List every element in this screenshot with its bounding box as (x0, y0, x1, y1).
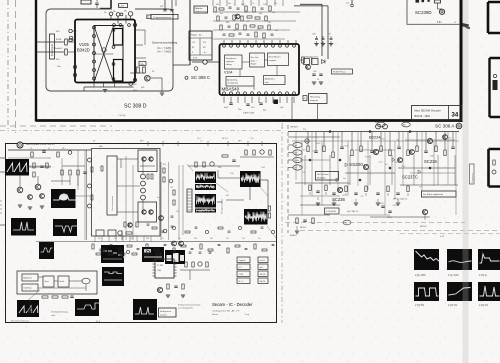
right section connecting verticals (304, 155, 306, 185)
svg-text:C1: C1 (30, 148, 32, 150)
U2 pin circles top (223, 44, 226, 47)
transistor Q33 (28, 195, 33, 200)
transistor Q60 (422, 209, 427, 214)
inductor L21 top mark (351, 0, 353, 4)
main rail right section (288, 131, 459, 133)
transistor Q31 (17, 187, 23, 193)
loop wires (38, 276, 43, 278)
svg-text:B342D: B342D (77, 48, 90, 53)
left edge stub wires (0, 157, 6, 159)
svg-text:MP1: MP1 (140, 141, 144, 143)
test point MPe box (139, 62, 146, 66)
svg-text:vergleich: vergleich (269, 59, 277, 62)
U2 block Amplitudensieb (264, 76, 286, 85)
svg-text:SC237C: SC237C (402, 175, 418, 180)
second bottom parts row (96, 253, 101, 255)
svg-text:Endst.: Endst. (60, 280, 66, 283)
svg-text:Bildrohr-: Bildrohr- (195, 7, 203, 10)
terminal double circle SC306A (456, 123, 462, 129)
cluster C81 boxes (304, 59, 310, 65)
svg-text:R216: R216 (244, 12, 249, 14)
top border tick marks (147, 141, 149, 146)
right section resistor columns (307, 132, 309, 147)
wire left feed 2 (68, 41, 75, 43)
svg-text:4k7: 4k7 (216, 4, 219, 6)
svg-text:V105: V105 (79, 42, 89, 47)
U2 block Verzoegerung (226, 77, 254, 87)
svg-text:680: 680 (448, 137, 451, 139)
oscillogram J staircase (101, 245, 124, 263)
loop summing ellipse (82, 278, 90, 284)
grounds cluster (312, 81, 316, 83)
svg-text:U¼ > 7,4V(8): U¼ > 7,4V(8) (157, 47, 171, 50)
svg-text:R45: R45 (163, 164, 166, 166)
wire pads to U1 (110, 16, 112, 20)
oscillogram M step (75, 299, 99, 316)
components right column upper (245, 150, 247, 155)
svg-text:Programmiertüren: Programmiertüren (154, 16, 172, 19)
svg-text:Der Röhre abgleichen: Der Röhre abgleichen (423, 193, 444, 196)
page margin dashed line (15, 0, 17, 133)
svg-text:ungsverst-: ungsverst- (226, 60, 235, 63)
signal name ellipses (293, 142, 302, 147)
svg-text:1k2: 1k2 (304, 141, 307, 143)
svg-text:7,2b: 7,2b (250, 138, 254, 140)
loop block 3 (43, 276, 54, 287)
mid components row x160-280 (152, 227, 157, 229)
connector X1 vertical label box (50, 34, 55, 59)
left input wire rail (8, 149, 91, 151)
svg-text:1n5/63n: 1n5/63n (312, 57, 319, 59)
svg-text:8k2: 8k2 (275, 30, 278, 32)
oscillogram G noise (195, 194, 216, 208)
svg-text:C230: C230 (429, 156, 433, 158)
svg-text:MP 0,4: MP 0,4 (222, 138, 228, 140)
wire left feed 1 (36, 41, 64, 43)
components between A and B (33, 163, 35, 168)
horizontal bus above bottom rows (91, 241, 276, 243)
svg-text:R34: R34 (241, 4, 244, 6)
svg-text:DA CB: DA CB (260, 280, 266, 283)
right cluster resistor R310 (302, 57, 305, 63)
vertical wires left of F (160, 162, 162, 240)
oscillogram P spikes (133, 299, 157, 320)
svg-text:1k: 1k (252, 3, 254, 5)
svg-text:Lact B: Lact B (260, 259, 266, 262)
components under U4 (167, 284, 169, 289)
svg-text:R251: R251 (393, 205, 397, 207)
delay line component (187, 189, 192, 212)
U3 upper transistors (142, 157, 146, 161)
oscillogram C pulse (11, 218, 36, 236)
top module frame bottom edge (36, 119, 462, 122)
right cluster wires (299, 59, 303, 61)
small square left of box (303, 96, 307, 101)
circled test point MP pair (376, 124, 381, 129)
svg-text:CCIR: CCIR (239, 274, 244, 276)
svg-text:4n7: 4n7 (157, 197, 160, 199)
Regel-Sp table box (189, 31, 212, 60)
svg-text:MP301: MP301 (282, 122, 284, 129)
wire top cluster (175, 0, 177, 6)
stub wires right of U1 (135, 29, 145, 31)
svg-text:C10 22µ: C10 22µ (118, 115, 126, 117)
IC U2 V104 package (220, 44, 300, 95)
mini option boxes column 2 (258, 257, 268, 263)
U3 middle transistor chain (141, 174, 146, 179)
svg-text:Mod- SECAM- Decoder: Mod- SECAM- Decoder (415, 110, 441, 113)
U2 bottom pin wires (223, 97, 225, 103)
svg-text:Burst-Phasen-: Burst-Phasen- (269, 56, 281, 59)
oscillogram L ramps (17, 300, 39, 317)
svg-text:C41: C41 (114, 238, 117, 240)
U2 pin circles bottom (223, 92, 226, 95)
U1 bottom pin drops (93, 82, 95, 87)
component box crossing top edge (81, 0, 91, 4)
long vertical wire pair top right (300, 3, 322, 5)
svg-text:10n: 10n (302, 172, 305, 174)
svg-text:Systemumschaltung: Systemumschaltung (152, 41, 178, 45)
dashed separator right section (285, 222, 465, 224)
svg-text:IC 301: IC 301 (157, 265, 164, 267)
svg-text:PL307 Phase: PL307 Phase (333, 72, 346, 74)
vertical feed wires from top edge (212, 0, 214, 6)
svg-text:34: 34 (452, 113, 459, 119)
U3 sub block lower (138, 202, 157, 222)
U1 dark sub block upper right (114, 29, 123, 46)
svg-text:47n: 47n (257, 29, 260, 31)
U2 block Regelspannungs-verstaerker (225, 55, 243, 69)
wires F G H I interconnect (218, 177, 240, 179)
svg-text:C81: C81 (304, 57, 307, 59)
svg-text:R178: R178 (56, 39, 62, 41)
svg-text:5 0V: 5 0V (193, 58, 198, 60)
svg-text:sieb: sieb (265, 82, 268, 84)
svg-text:C83: C83 (313, 71, 316, 73)
svg-text:C93: C93 (246, 21, 249, 23)
top test point ellipse RV (402, 122, 410, 127)
svg-text:Bildrohrplatte 29301-102.50: Bildrohrplatte 29301-102.50 (26, 143, 55, 146)
U1 pin circles top edge (113, 24, 116, 27)
wire stub down-left (83, 87, 85, 91)
leader diagonal I to frame (267, 226, 276, 238)
top module frame left edge (35, 0, 37, 122)
oscillogram Q2 (447, 249, 472, 270)
svg-text:2 (1) 250: 2 (1) 250 (415, 273, 426, 277)
oscillogram Q6 (478, 282, 500, 301)
svg-text:Hor.-Osz-: Hor.-Osz- (251, 56, 259, 59)
svg-text:Amplituden-: Amplituden- (265, 78, 275, 81)
ellipse BV lower (343, 220, 351, 225)
wire drop from top edge (110, 0, 112, 8)
U1 pin circles mid column (112, 29, 115, 32)
svg-text:Horizontal-: Horizontal- (310, 96, 320, 99)
transistor Q38 (157, 287, 162, 292)
svg-text:10n: 10n (343, 178, 346, 180)
ellipse feed wires (288, 144, 293, 146)
transistor Q34 (40, 194, 45, 199)
SC239D top components (416, 0, 420, 3)
svg-text:frequenz: frequenz (310, 99, 318, 102)
svg-text:SC239D: SC239D (415, 10, 432, 15)
U3 lower transistors (142, 210, 146, 214)
loop block Ist-Wert (22, 284, 38, 291)
svg-text:SC236: SC236 (424, 159, 437, 164)
svg-text:4k7: 4k7 (226, 195, 229, 197)
resistor cluster left of F (173, 190, 175, 195)
oscillogram F2 strip (195, 184, 216, 190)
svg-text:R65: R65 (218, 167, 221, 169)
input components row (31, 152, 33, 157)
svg-text:1n: 1n (48, 148, 50, 150)
svg-text:DATE 1986: DATE 1986 (243, 112, 255, 115)
adjacent board box 3 (489, 149, 500, 187)
transistor Q36 (159, 216, 164, 221)
svg-text:SW CB: SW CB (260, 274, 267, 276)
svg-text:5k6: 5k6 (259, 13, 262, 15)
svg-text:R240: R240 (299, 167, 303, 169)
svg-text:MP312 SAL/10: MP312 SAL/10 (393, 198, 408, 201)
svg-text:1k2: 1k2 (419, 186, 422, 188)
U2 block Burst-Phasenvergleich (268, 53, 289, 66)
svg-text:0u47: 0u47 (313, 151, 317, 153)
U3 wires (117, 158, 138, 160)
svg-text:17,4: 17,4 (197, 138, 201, 140)
IC U3 block diagram frame (92, 149, 161, 237)
svg-text:Bausteinanleitung a: Bausteinanleitung a (11, 320, 30, 323)
right cluster transistor (306, 65, 311, 70)
svg-text:27k: 27k (303, 129, 306, 131)
terminal circle pair lower (194, 67, 198, 71)
svg-text:V104: V104 (224, 71, 232, 75)
svg-text:MP308: MP308 (420, 226, 427, 228)
svg-text:verzögerung: verzögerung (227, 82, 238, 85)
U2 internal wires (242, 61, 250, 63)
svg-text:2k2: 2k2 (342, 195, 345, 197)
title block divider (448, 106, 450, 121)
caps C249 C250 (381, 205, 384, 207)
svg-text:R240: R240 (365, 156, 369, 158)
title block box (412, 106, 463, 121)
svg-text:Regler: Regler (251, 63, 257, 66)
svg-text:22n: 22n (178, 238, 181, 240)
capacitor L2T cluster top (164, 0, 166, 9)
capacitor C40 at top (95, 2, 98, 4)
leader lines to oscillograms (216, 183, 228, 192)
U1 dark sub block lower right (114, 60, 123, 82)
svg-text:U¼ < 7,4V(2): U¼ < 7,4V(2) (157, 51, 171, 54)
svg-text:Secam - IC - Decoder: Secam - IC - Decoder (212, 302, 253, 307)
svg-text:2 (1) 64V: 2 (1) 64V (448, 273, 459, 277)
U3 small resistors (91, 167, 93, 172)
svg-text:2 (0) 4...: 2 (0) 4... (479, 273, 489, 277)
oscillogram Q3 (478, 249, 500, 270)
extra fine wires right section (292, 140, 459, 142)
node circle link (203, 60, 207, 64)
mid column components (61, 170, 63, 175)
svg-text:C87: C87 (328, 34, 331, 36)
oscillogram K flat (102, 267, 124, 286)
components row under U3 (124, 222, 126, 227)
IC U1 inner matrix block (94, 26, 123, 83)
svg-text:680: 680 (210, 238, 213, 240)
wires to oscillogram B (51, 180, 70, 182)
svg-text:R234: R234 (344, 145, 348, 147)
svg-text:7,2: 7,2 (200, 141, 203, 143)
svg-text:2 (0) 5V: 2 (0) 5V (415, 303, 424, 307)
Horizontalfrequenz box (309, 94, 328, 104)
resistor R105 (137, 67, 140, 73)
control loop sub-box (17, 271, 97, 294)
svg-text:C212: C212 (378, 161, 382, 163)
Programmier box (151, 14, 178, 19)
wire horizontal to U1 top (100, 7, 111, 9)
svg-text:D 2: D 2 (239, 267, 242, 269)
wire divider SC308D/SC308C (189, 0, 191, 65)
node circle left (69, 36, 73, 40)
svg-text:5k6: 5k6 (302, 149, 305, 151)
svg-text:0u1: 0u1 (220, 13, 223, 15)
svg-text:3w9x12: 3w9x12 (55, 48, 63, 50)
svg-text:TBA: TBA (157, 269, 162, 272)
RC network above U2 (resistors and wires) (214, 7, 216, 12)
resistor R102 (65, 49, 68, 55)
electrolytic cap dark blob (274, 100, 279, 105)
svg-text:Verzögerungsltg.: Verzögerungsltg. (221, 199, 224, 214)
svg-text:20: 20 (317, 79, 319, 81)
svg-text:47n: 47n (258, 238, 261, 240)
Der Roehre box (422, 191, 457, 197)
svg-text:Original: Original (239, 259, 246, 262)
svg-text:ärkung: ärkung (226, 63, 232, 66)
terminal pads 1b 2b 0b (109, 12, 113, 16)
svg-text:A5/A01: A5/A01 (290, 234, 297, 237)
transistor Q32 (35, 184, 41, 190)
svg-text:Regel - Sp: Regel - Sp (191, 35, 202, 37)
terminal double circle (439, 9, 444, 14)
IC U4 DIP package (155, 259, 174, 278)
loop block 4 (58, 276, 69, 287)
svg-text:an Leitungsstufe: an Leitungsstufe (178, 307, 194, 310)
svg-text:MBA540: MBA540 (222, 87, 240, 92)
svg-text:Ub†-Schema: Ub†-Schema (317, 174, 330, 176)
svg-text:Bild 06 - 1993: Bild 06 - 1993 (415, 115, 431, 118)
matrix cross wires (94, 26, 114, 82)
svg-text:1k8: 1k8 (176, 211, 179, 213)
capacitor trio C86-C88 with grounds (316, 36, 318, 39)
oscillogram I noise (244, 209, 268, 225)
oscillogram A sawtooth (5, 159, 29, 176)
svg-text:4n7: 4n7 (385, 164, 388, 166)
oscillogram N (142, 247, 164, 262)
wire box to frame (317, 104, 319, 120)
long horizontal fine wires (8, 157, 51, 159)
svg-text:22k: 22k (274, 3, 277, 5)
boxed text 0,47u (325, 208, 340, 214)
resistor row under loop (42, 296, 48, 298)
U1 centre node circle (102, 48, 106, 52)
svg-text:C249: C249 (379, 203, 384, 205)
svg-text:R270: R270 (395, 162, 399, 164)
svg-text:Konvergenz: Konvergenz (51, 43, 54, 56)
svg-text:SC 308 C: SC 308 C (191, 75, 210, 80)
oscillogram F noise (195, 172, 216, 184)
svg-text:C250: C250 (387, 217, 392, 219)
U1 pin circles inner left column (93, 26, 96, 29)
sub circuit right of U4 (185, 262, 187, 267)
adjacent board box top right corner (488, 2, 500, 33)
svg-text:0µ47 SAV 10: 0µ47 SAV 10 (347, 210, 358, 213)
svg-text:C32: C32 (230, 173, 233, 175)
U3 left bus wire (86, 150, 88, 240)
extra components x160-195 column (163, 168, 165, 173)
small resistors right of I (268, 206, 270, 211)
diagonal leader lines to L (28, 290, 40, 300)
wires bottom left cluster (29, 300, 31, 308)
svg-text:C 0,47µ/63V: C 0,47µ/63V (326, 211, 337, 213)
wire link SC308D to U2 (192, 61, 219, 63)
wire under block (130, 72, 144, 74)
C83 caps (312, 73, 315, 75)
svg-text:abgleichung: abgleichung (195, 11, 207, 13)
small parts right edge (493, 160, 495, 165)
Secam decoder board frame (6, 144, 277, 323)
svg-text:MHz: MHz (99, 146, 103, 148)
svg-text:1M: 1M (268, 22, 271, 24)
frame terminal double circle (17, 142, 23, 148)
right section horizontal wires (295, 182, 350, 184)
oscillogram Q1 (414, 249, 439, 270)
svg-text:nisation: nisation (160, 313, 167, 316)
U3 bottom components (96, 230, 104, 236)
module boundary dash-dot line under top frame (0, 125, 112, 127)
svg-text:MP·: MP· (375, 122, 379, 124)
svg-text:4k7: 4k7 (98, 238, 101, 240)
svg-text:B - 2: B - 2 (239, 281, 243, 283)
bottom component rows (92, 244, 94, 249)
resistor R106 (143, 67, 146, 73)
diode D31 (322, 60, 325, 64)
svg-text:Auslöseimp-: Auslöseimp- (227, 79, 238, 82)
oscillogram Q4 (414, 282, 439, 301)
U3 vertical bar (107, 156, 117, 215)
oscillogram Q5 (447, 282, 472, 301)
U3 sub block upper (138, 150, 157, 172)
Chrominanz vertical label box (470, 164, 475, 184)
svg-text:C55: C55 (226, 238, 229, 240)
U1 package corner pins (73, 65, 76, 68)
horizontal bus wires above U2 (213, 11, 300, 13)
svg-text:Regelspann-: Regelspann- (226, 58, 237, 60)
svg-text:22k: 22k (360, 196, 363, 198)
Farbsynchronisation box (159, 308, 177, 317)
U1 outside left pins (69, 29, 72, 32)
svg-text:SC 308 D: SC 308 D (124, 104, 147, 110)
oscillogram H noise (240, 171, 261, 187)
oscillogram D dip (53, 219, 77, 236)
svg-text:C87: C87 (263, 4, 266, 6)
Regelabgleichung box (194, 6, 208, 13)
U3 bottom pin stubs (94, 236, 96, 242)
svg-text:R22: R22 (233, 30, 236, 32)
svg-text:Chrominanzverst.: Chrominanzverst. (111, 195, 114, 211)
transistor pair above O (172, 241, 177, 246)
component inside tall box (493, 80, 498, 90)
svg-text:5k6: 5k6 (396, 139, 399, 141)
mini option boxes column 1 (237, 257, 250, 263)
PL307 Phase box (332, 69, 353, 74)
inductor L4 box (119, 4, 128, 8)
